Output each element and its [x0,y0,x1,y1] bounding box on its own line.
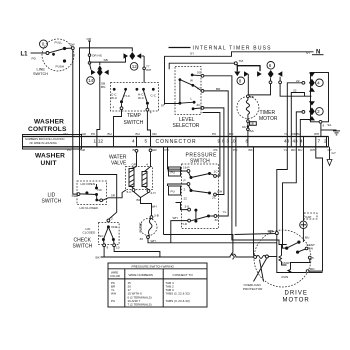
svg-text:WH: WH [310,148,315,152]
wire SB run [90,57,126,65]
svg-text:10: 10 [116,246,120,250]
pressure switch wiring table [108,263,207,307]
svg-text:9: 9 [107,246,109,250]
svg-text:WASHER: WASHER [34,119,64,126]
svg-text:NC: NC [98,188,103,192]
connector 8 [237,65,245,85]
svg-text:PU: PU [233,148,237,152]
svg-text:BR: BR [137,198,142,202]
svg-text:CLOSED: CLOSED [83,231,96,235]
wire pressure box bottom to motor [164,230,277,260]
wire SW down to connector (PU) [72,50,74,137]
svg-text:PRESSURE SWITCH WIRING: PRESSURE SWITCH WIRING [132,264,175,268]
svg-text:SELECTOR: SELECTOR [173,123,200,129]
svg-text:CONTROLS: CONTROLS [28,126,67,133]
svg-text:CONNECT TO: CONNECT TO [173,273,194,277]
svg-text:BN: BN [101,85,105,89]
wire BU to cap [304,147,310,240]
level selector [173,67,204,129]
timer motor [237,95,278,122]
svg-text:WH: WH [314,132,319,136]
svg-text:1: 1 [113,105,115,109]
svg-text:OF WIRE IN HOUSING: OF WIRE IN HOUSING [30,141,57,145]
svg-text:YL: YL [284,132,288,136]
svg-text:PROTECTOR: PROTECTOR [243,287,263,291]
svg-text:VALVE: VALVE [111,161,127,167]
wire NC stub [96,184,98,187]
svg-text:SW: SW [72,194,77,198]
lid switch [42,181,107,210]
wire cluster6 to timer motor [248,74,311,99]
wires level selector to connector [203,76,234,137]
connector diamond 12 [124,52,145,71]
svg-text:OR HS: OR HS [92,54,102,58]
svg-text:ONE: ONE [111,225,118,229]
svg-text:CONNECTOR: CONNECTOR [156,139,197,145]
svg-text:WH: WH [217,190,222,194]
svg-text:7: 7 [318,138,321,143]
svg-text:30: 30 [140,237,144,241]
svg-text:BU: BU [298,148,302,152]
svg-text:RUN: RUN [282,275,289,279]
svg-text:WH: WH [151,239,156,243]
wire OR stub [87,37,102,64]
svg-text:4: 4 [132,138,135,143]
svg-text:10: 10 [231,138,237,143]
svg-text:TABS (3, 23 & 33): TABS (3, 23 & 33) [166,299,190,303]
connector cluster 6 [234,62,282,78]
svg-text:5: 5 [145,138,148,143]
svg-text:L: L [191,97,193,101]
svg-text:PUSH: PUSH [56,65,65,69]
svg-text:8: 8 [239,79,242,84]
svg-text:SWITCH: SWITCH [190,159,210,165]
pressure switch left connections [168,171,188,243]
svg-text:TABS (2, 22 & 32): TABS (2, 22 & 32) [166,292,190,296]
svg-text:BR: BR [216,87,221,91]
svg-text:GR: GR [81,148,86,152]
wire check sw 10 run [114,247,160,257]
svg-text:PD: PD [32,57,37,61]
svg-text:4: 4 [150,111,152,115]
water valve [109,149,156,195]
svg-text:NUMBERS INDICATE LOCATION: NUMBERS INDICATE LOCATION [25,137,65,141]
svg-text:PU: PU [165,148,169,152]
svg-text:BU: BU [229,132,233,136]
line switch SW1 [33,39,75,76]
overload protector [243,255,277,291]
svg-text:2: 2 [111,217,113,221]
wires timer outputs to connector [284,79,319,137]
svg-text:YL: YL [223,210,227,214]
connector diamond 14 [87,64,109,85]
svg-text:WH: WH [111,292,116,296]
svg-text:BU: BU [136,132,140,136]
wire RD to motor [283,147,297,248]
DRIVE MOTOR label [283,291,310,304]
svg-text:OR: OR [152,132,157,136]
timer buss TM line [169,59,243,69]
check switch [73,217,120,250]
svg-text:7 (2 TERMINALS): 7 (2 TERMINALS) [128,303,152,307]
wire buss to cluster6 [237,65,260,72]
svg-text:5: 5 [312,256,314,260]
wire lid sw C to junction [103,198,117,201]
svg-text:1: 1 [94,138,97,143]
svg-text:START: START [282,261,292,265]
pressure switch trunk wires left [164,147,182,235]
svg-text:WH: WH [146,68,151,72]
svg-text:12: 12 [132,64,138,69]
svg-text:LID OPEN: LID OPEN [81,182,95,186]
svg-text:PU: PU [111,299,115,303]
svg-text:W-C: W-C [111,96,118,100]
svg-text:SWITCH: SWITCH [73,244,93,250]
svg-text:WH: WH [268,229,273,233]
WASHER UNIT label [35,153,65,168]
wire BK from check switch [96,247,105,260]
svg-text:P: P [184,179,186,183]
wire BK trunk to overload [253,147,255,256]
wire WH right trunk [309,147,323,271]
svg-text:FUSE: FUSE [139,222,143,233]
svg-text:22: 22 [184,197,188,201]
svg-text:WASHER: WASHER [35,153,65,160]
svg-text:2B: 2B [250,122,254,126]
wire top run to connector 12 [80,48,133,137]
wire box9 to connector and ground [321,123,337,137]
wire PU trunk down right [232,147,282,245]
svg-text:INTERNAL TIMER BUSS: INTERNAL TIMER BUSS [193,45,272,51]
svg-text:C-C: C-C [151,94,157,98]
wire GY to ground arrow [327,147,336,166]
wire labels below connector [67,148,332,152]
right timer output box [309,73,329,128]
svg-text:SW: SW [308,247,313,251]
pressure switch [169,153,220,229]
wire WH run to drive motor [148,239,277,244]
svg-text:COLOR: COLOR [110,274,120,278]
svg-text:12: 12 [98,138,104,143]
wire PU to lid switch [73,147,77,194]
connector housing band [23,135,329,150]
svg-text:0: 0 [42,42,45,47]
svg-text:BU: BU [297,132,301,136]
svg-text:22: 22 [296,79,300,83]
svg-text:LID CLOSED: LID CLOSED [80,206,99,210]
temp switch [111,83,159,127]
svg-text:TEMP: TEMP [127,113,142,119]
svg-text:43: 43 [293,138,299,143]
wire valve to fuse BR [134,192,157,216]
svg-text:4: 4 [317,81,320,86]
svg-text:GY: GY [332,151,336,155]
svg-text:WH: WH [173,216,178,220]
wire stubs through band [73,137,327,147]
svg-text:H-D: H-D [182,222,188,226]
svg-text:3-B: 3-B [154,214,159,218]
svg-text:BU: BU [305,236,309,240]
wire GR feed [80,147,117,220]
wire BK long run to overload [101,254,254,257]
svg-text:GR: GR [132,163,137,167]
svg-text:9: 9 [323,124,325,128]
svg-text:OR: OR [87,37,92,41]
svg-text:NC: NC [99,234,104,238]
svg-text:W: W [190,79,193,83]
timer buss SY line to N [165,52,314,105]
svg-text:TM: TM [239,59,244,63]
svg-text:SY: SY [190,52,194,56]
svg-text:6: 6 [269,63,272,68]
pressure switch connections right [216,147,228,216]
svg-text:SWITCH: SWITCH [124,120,144,126]
wire 14 down to connector [97,76,105,136]
wire 12 to temp switch [143,56,151,83]
svg-text:9T: 9T [161,104,165,108]
svg-text:L1: L1 [21,52,29,58]
capacitor CAP [300,213,317,242]
svg-text:SWITCH: SWITCH [33,72,48,76]
svg-text:3-0: 3-0 [185,205,190,209]
svg-text:2: 2 [317,109,320,114]
svg-text:RD: RD [310,267,315,271]
wire buss to level selector [161,104,180,108]
svg-text:W-C: W-C [138,96,145,100]
WASHER CONTROLS label [28,119,67,134]
node L1 [21,52,47,61]
drive motor internals [277,235,323,279]
drive motor circle [254,230,311,287]
ground [333,131,340,135]
svg-text:WIRE NUMBERS: WIRE NUMBERS [129,273,153,277]
svg-text:SB: SB [104,58,108,62]
svg-text:GR: GR [81,132,86,136]
svg-text:MOTOR: MOTOR [283,298,310,304]
svg-text:PU: PU [171,189,175,193]
node N [306,50,324,56]
svg-text:2-H: 2-H [151,191,156,195]
wire labels above connector left [64,132,158,136]
motor terminal WH [268,229,278,235]
wire temp pin1 to connector [114,110,122,137]
svg-text:5-C: 5-C [127,190,133,194]
svg-text:UNIT: UNIT [41,160,57,167]
svg-text:2: 2 [184,188,186,192]
internal timer buss legend [169,45,272,51]
svg-text:PULL: PULL [55,41,63,45]
svg-text:WH: WH [152,205,157,209]
svg-text:CAP.: CAP. [305,215,312,219]
wire YL to motor [277,147,288,232]
svg-text:DRIVE: DRIVE [285,291,308,297]
wire timer motor to connector [242,122,256,137]
svg-text:4: 4 [146,163,148,167]
svg-text:16-P: 16-P [183,166,190,170]
svg-text:32: 32 [293,89,297,93]
wire valve 5R down [111,190,126,198]
svg-text:43: 43 [284,138,290,143]
svg-text:14: 14 [88,78,94,83]
svg-text:MOTOR: MOTOR [259,116,278,122]
svg-text:LINE: LINE [37,68,46,72]
svg-text:GR: GR [152,148,157,152]
svg-text:SWITCH: SWITCH [42,199,62,205]
svg-text:H-C: H-C [125,94,131,98]
svg-text:PU: PU [67,148,71,152]
fuse [139,214,159,242]
wire temp pin4 to connector [147,111,150,136]
svg-text:BU: BU [108,132,112,136]
svg-text:RD: RD [291,148,296,152]
svg-text:SW: SW [70,43,75,47]
